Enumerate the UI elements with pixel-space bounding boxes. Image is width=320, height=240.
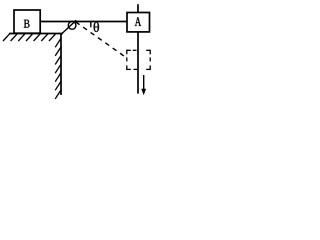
pulley [68, 22, 76, 30]
dashed string (later position) [76, 22, 127, 58]
block B [14, 10, 40, 33]
string below A through dashed box [137, 32, 139, 94]
label B [24, 20, 30, 28]
block A [127, 13, 150, 32]
dashed box: later position of A [127, 50, 150, 70]
label A [135, 17, 141, 26]
angle vertical reference stub [90, 22, 92, 28]
theta label [94, 22, 99, 32]
wall hatching [55, 38, 61, 99]
wall (table right side line) [60, 34, 62, 96]
downward motion arrow [143, 75, 145, 90]
string from B over pulley to A [40, 21, 127, 23]
pulley bracket [61, 20, 76, 34]
ground hatching [3, 34, 56, 41]
ground (table top line) [9, 33, 63, 35]
string above A [137, 4, 139, 12]
